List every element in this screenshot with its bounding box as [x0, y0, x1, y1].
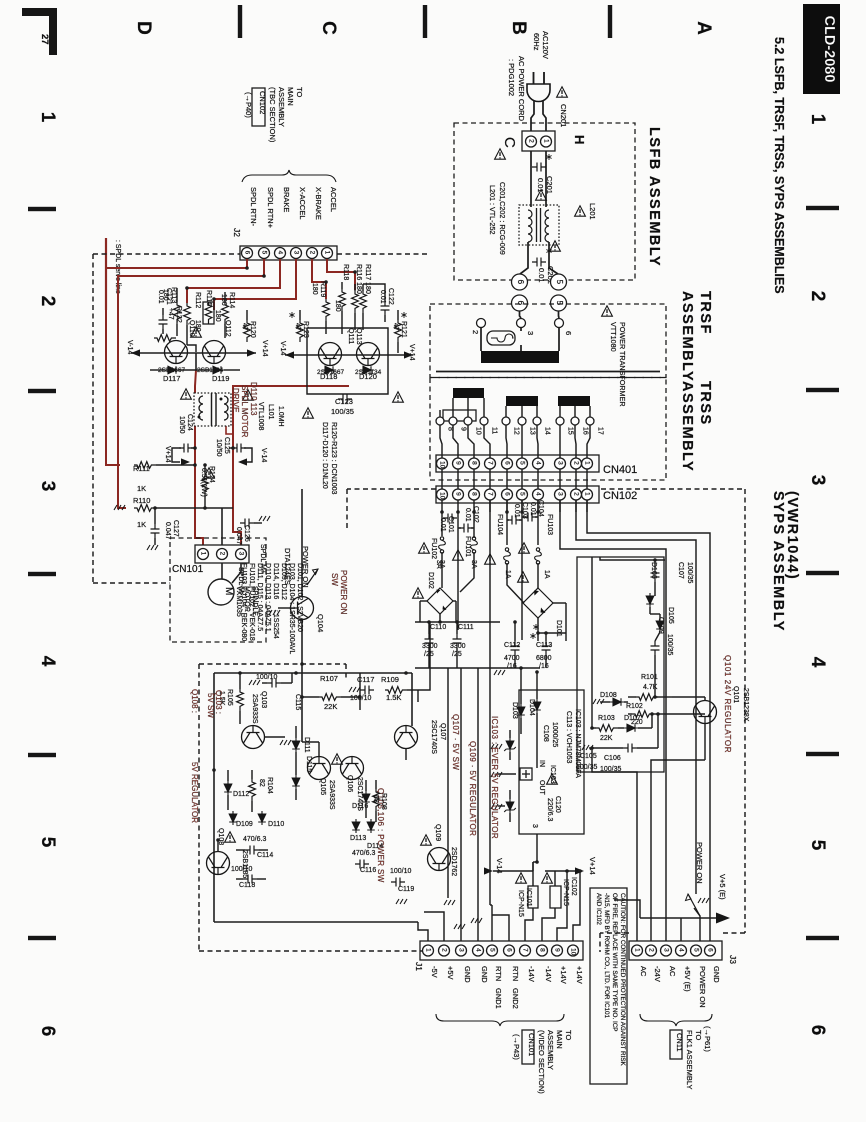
- svg-text:D114, D116: D114, D116: [272, 563, 279, 599]
- svg-text:2: 2: [308, 251, 315, 255]
- svg-text:3A: 3A: [435, 560, 442, 569]
- svg-text:SPDL RTN-: SPDL RTN-: [249, 187, 258, 227]
- dashed box around CN101 and motor: [170, 538, 266, 642]
- svg-text:AC: AC: [639, 966, 648, 977]
- capacitor C121 0.01: [159, 315, 168, 329]
- svg-text:2: 2: [218, 552, 225, 556]
- svg-text:C122: C122: [387, 288, 394, 305]
- bridge rectifier D102: [427, 588, 453, 614]
- svg-text:1000/25: 1000/25: [551, 722, 558, 747]
- IC103 regulator block box: [519, 690, 584, 834]
- net arrow V+5 E: [640, 917, 716, 919]
- svg-text:A: A: [693, 21, 714, 35]
- wire fused lines to bridge D102: [441, 552, 443, 588]
- svg-text:4: 4: [534, 492, 541, 496]
- svg-text:6: 6: [37, 1026, 58, 1037]
- connector CN401: [436, 455, 599, 472]
- svg-text:(→P61): (→P61): [703, 1026, 712, 1052]
- svg-text:D103, D104 : 1SR35-100AVL: D103, D104 : 1SR35-100AVL: [288, 563, 295, 654]
- red wire right pair output to motor: [233, 386, 349, 545]
- hatch at power on switch: [698, 898, 709, 903]
- grid tick top edge: [238, 5, 242, 38]
- svg-text:0.01: 0.01: [513, 504, 520, 518]
- svg-text:ASSEMBLY: ASSEMBLY: [679, 381, 695, 472]
- svg-text:FU104: FU104: [496, 514, 503, 535]
- svg-text:Q106: Q106: [346, 775, 353, 792]
- warning triangle Q108: [225, 832, 236, 842]
- svg-text:CLD-2080: CLD-2080: [821, 16, 837, 83]
- svg-text:AC: AC: [668, 966, 677, 977]
- diode D104: [533, 699, 541, 713]
- ground C127: [147, 545, 158, 550]
- svg-text:0.01: 0.01: [529, 502, 536, 516]
- transistor Q112 2SB1134: [203, 341, 226, 364]
- svg-text:C113 : VCH1053: C113 : VCH1053: [565, 711, 572, 764]
- svg-text:C110: C110: [430, 624, 446, 631]
- svg-text:RTN: RTN: [494, 966, 503, 981]
- svg-text:ASSEMBLY: ASSEMBLY: [546, 1030, 555, 1070]
- svg-text:/25: /25: [452, 651, 462, 658]
- warning triangle FU104: [485, 554, 496, 564]
- brace under J3: [640, 1014, 712, 1026]
- svg-text:7: 7: [486, 461, 493, 465]
- svg-text:C115: C115: [294, 694, 301, 710]
- AC plug P1: [527, 84, 550, 102]
- svg-text:R116 180: R116 180: [355, 264, 362, 294]
- svg-text:16: 16: [582, 427, 589, 435]
- svg-text:ASSEMBLY: ASSEMBLY: [679, 291, 695, 382]
- svg-text:3: 3: [526, 331, 535, 335]
- svg-text:/25: /25: [424, 651, 434, 658]
- ground C106: [582, 745, 593, 750]
- connector CN101: [195, 545, 249, 563]
- svg-text:8: 8: [470, 461, 477, 465]
- svg-text:D117: D117: [163, 374, 180, 383]
- grid ticks right edge: [806, 206, 839, 210]
- svg-text:15: 15: [567, 427, 574, 435]
- svg-text:2SB1238X: 2SB1238X: [742, 688, 749, 722]
- svg-text:D106: D106: [650, 562, 657, 579]
- svg-text:D108: D108: [600, 692, 617, 699]
- svg-text:8: 8: [538, 948, 545, 952]
- resistor R124 0.51 1W: [202, 473, 209, 495]
- resistor R123 47: [297, 320, 304, 342]
- svg-text:+5V: +5V: [446, 966, 455, 980]
- svg-text:D114: D114: [367, 843, 383, 850]
- svg-text:9: 9: [454, 461, 461, 465]
- svg-text:SW: SW: [330, 573, 339, 586]
- svg-text:C109: C109: [657, 617, 664, 634]
- transistor Q109 2SD1762: [428, 848, 451, 871]
- svg-text:5: 5: [260, 251, 267, 255]
- svg-text:180: 180: [334, 300, 341, 312]
- svg-text:R112: R112: [194, 292, 201, 308]
- svg-text:C: C: [501, 137, 518, 148]
- svg-text:C: C: [318, 21, 339, 35]
- svg-text:0.01: 0.01: [157, 290, 164, 304]
- svg-text:FU101,FU102 : VEK-018: FU101,FU102 : VEK-018: [248, 563, 255, 641]
- red wire J2 pin4: [187, 259, 280, 303]
- svg-text:OUT: OUT: [538, 780, 545, 796]
- wire down left side of 24V box: [591, 700, 593, 728]
- svg-text:6: 6: [706, 948, 713, 952]
- svg-text:ICP-N15: ICP-N15: [517, 890, 524, 917]
- svg-text:D103: D103: [511, 702, 518, 719]
- wires CN102 into SYPS: [586, 500, 588, 512]
- svg-text:14: 14: [544, 427, 551, 435]
- brace to J2 signals: [242, 170, 336, 182]
- net arrow V-14: [484, 867, 493, 874]
- svg-text:-14V: -14V: [544, 966, 553, 982]
- transformer secondary winding bar 1: [453, 388, 484, 398]
- transistors Q105 2SA933S Q106 2SC1740S: [308, 757, 331, 780]
- svg-text:Q103: Q103: [260, 691, 267, 708]
- power switch block dashed box: [198, 664, 200, 951]
- capacitor C123 100/35: [338, 395, 352, 404]
- ground C117: [349, 687, 360, 692]
- ground C126: [259, 516, 270, 521]
- svg-text:5: 5: [518, 461, 525, 465]
- ground hatches near J1: [454, 924, 465, 929]
- svg-text:CN201: CN201: [559, 104, 568, 127]
- fuse FU102 3A: [439, 537, 446, 553]
- svg-text:R120-R123 : DCN1003: R120-R123 : DCN1003: [330, 422, 337, 494]
- svg-text:GND: GND: [463, 966, 472, 983]
- svg-text:-14V: -14V: [527, 966, 536, 982]
- wire Q104 emitter up: [301, 540, 303, 596]
- svg-text:5: 5: [488, 948, 495, 952]
- label POWER TRANSFORMER VTT1080 with warning triangle: [602, 306, 613, 316]
- svg-text:D102: D102: [427, 572, 434, 589]
- svg-text:2: 2: [647, 948, 654, 952]
- svg-text:V+14: V+14: [408, 344, 415, 361]
- capacitor C202 0.01 across line: [532, 258, 546, 267]
- wires 5V block outputs to J1: [418, 922, 428, 941]
- svg-text:OF FIRE, REPLACE WITH SAME TYP: OF FIRE, REPLACE WITH SAME TYPE NO. ICP: [611, 893, 618, 1031]
- zener diode lower: [504, 799, 516, 813]
- svg-text:R123: R123: [302, 321, 309, 338]
- svg-text:AND IC102: AND IC102: [595, 893, 602, 925]
- svg-text:2: 2: [527, 139, 534, 143]
- wire V+14 rail to spindle section: [418, 622, 430, 690]
- svg-text:2: 2: [471, 330, 480, 334]
- svg-text:C117: C117: [357, 675, 374, 684]
- svg-text:CN101: CN101: [172, 564, 204, 575]
- svg-text:6: 6: [243, 251, 250, 255]
- junction dots: [440, 510, 444, 514]
- warning triangle below C201: [536, 190, 547, 200]
- svg-text:R108: R108: [380, 793, 387, 810]
- svg-text:C119: C119: [398, 886, 414, 893]
- svg-text:7: 7: [486, 492, 493, 496]
- svg-text:CN101: CN101: [527, 1033, 536, 1056]
- svg-text:C101: C101: [447, 516, 454, 533]
- svg-text:4700: 4700: [504, 655, 520, 662]
- resistor R122 47: [154, 335, 176, 342]
- capacitor C104 0.01: [523, 513, 537, 522]
- svg-text:D117-D120 : D1NL20: D117-D120 : D1NL20: [321, 422, 328, 489]
- svg-text:1: 1: [323, 251, 330, 255]
- svg-text:3: 3: [457, 948, 464, 952]
- transformer secondary winding bar 3: [558, 396, 590, 406]
- ground at rail: [494, 670, 505, 675]
- wires to IC protectors: [532, 862, 534, 886]
- svg-text:V-14: V-14: [126, 340, 133, 355]
- svg-text:9: 9: [460, 427, 467, 431]
- capacitor C110 3300/25: [425, 634, 434, 648]
- diode D105: [656, 618, 664, 632]
- svg-text:GND2: GND2: [511, 988, 520, 1009]
- svg-text:CN11: CN11: [675, 1033, 684, 1052]
- svg-text:C118: C118: [239, 882, 255, 889]
- svg-text:: 1SS254: : 1SS254: [272, 610, 279, 639]
- svg-text:47: 47: [241, 323, 248, 331]
- transistor Q103 2SA933S: [242, 726, 265, 749]
- svg-text:3: 3: [807, 475, 828, 486]
- resistor R113 180: [174, 302, 181, 324]
- svg-text:÷47: ÷47: [167, 308, 174, 320]
- capacitor C101 0.01: [441, 512, 443, 536]
- model number box CLD-2080: [803, 4, 840, 94]
- svg-text:R110: R110: [133, 496, 150, 505]
- svg-text:7: 7: [521, 948, 528, 952]
- svg-text:ICP-N15: ICP-N15: [562, 879, 569, 906]
- svg-text:10: 10: [569, 948, 576, 956]
- svg-text:-24V: -24V: [653, 966, 662, 982]
- svg-text:22K: 22K: [324, 702, 337, 711]
- mating terminals 6/5 LSFB side: [512, 274, 528, 290]
- svg-text:C108: C108: [542, 725, 549, 742]
- svg-text:100/10: 100/10: [390, 868, 412, 875]
- svg-text:Q107 · 5V SW: Q107 · 5V SW: [451, 714, 460, 770]
- svg-text:V+14: V+14: [261, 340, 268, 357]
- wire CN102 pin2 to power-on switch line: [576, 500, 696, 894]
- svg-text:D107: D107: [624, 715, 641, 722]
- svg-text:POWER ON: POWER ON: [695, 842, 704, 884]
- svg-text:5.2 LSFB, TRSF, TRSS, SYPS A: 5.2 LSFB, TRSF, TRSS, SYPS ASSEMBLIES: [772, 37, 786, 294]
- wire L201 to terminals: [527, 242, 529, 262]
- svg-text:CN401: CN401: [603, 464, 637, 476]
- svg-text:C123: C123: [335, 397, 353, 406]
- svg-text:3: 3: [37, 481, 58, 492]
- secondary terminal leads: [439, 410, 441, 417]
- svg-text:0.51(1W): 0.51(1W): [200, 468, 207, 497]
- svg-text:0.047: 0.047: [164, 522, 171, 540]
- svg-text:TO: TO: [564, 1030, 573, 1040]
- svg-text:MAIN: MAIN: [555, 1030, 564, 1049]
- svg-text:4: 4: [677, 948, 684, 952]
- svg-text:LSFB ASSEMBLY: LSFB ASSEMBLY: [646, 127, 662, 267]
- svg-text:4: 4: [534, 461, 541, 465]
- label L101 VTL-1008 1.0MH warning: [243, 390, 254, 400]
- svg-text:4: 4: [276, 251, 283, 255]
- svg-text:D109, D112: D109, D112: [280, 563, 287, 600]
- svg-text:IC103 : EVER 5V REGULATOR: IC103 : EVER 5V REGULATOR: [490, 716, 499, 839]
- svg-text:C201,C202 : RCG-009: C201,C202 : RCG-009: [498, 182, 507, 255]
- svg-text:C120: C120: [554, 796, 561, 813]
- warning triangle D117: [181, 389, 192, 399]
- svg-text:100/35: 100/35: [686, 562, 693, 584]
- resistor R121 47: [395, 320, 402, 342]
- transistor Q104 DTA124ES: [291, 597, 314, 620]
- svg-text:J3: J3: [728, 955, 738, 964]
- capacitor C126 0.047: [240, 519, 254, 528]
- svg-text:C125: C125: [223, 437, 230, 454]
- svg-text:6: 6: [564, 331, 573, 335]
- wire fused to bridge D101: [537, 563, 539, 588]
- svg-text:47: 47: [294, 323, 301, 331]
- resistor R115 boxed: [203, 302, 214, 324]
- svg-text:1.5K: 1.5K: [386, 693, 401, 702]
- wires to fuses FU103/FU104: [506, 500, 508, 545]
- svg-text:L101: L101: [267, 404, 274, 420]
- svg-text:C121: C121: [165, 288, 172, 305]
- emitter rail left pair with V-14 V+14 arrows: [131, 352, 256, 354]
- svg-text:-5V: -5V: [430, 966, 439, 978]
- capacitor C201 0.01 across line: [532, 163, 546, 172]
- svg-text:3: 3: [556, 461, 563, 465]
- wires Q101: [654, 664, 656, 697]
- svg-text:R121: R121: [400, 321, 407, 338]
- svg-text:D119: D119: [212, 374, 229, 383]
- svg-text:: PDG1002: : PDG1002: [507, 59, 516, 96]
- transformer primary winding bar: [481, 351, 559, 363]
- wire Q104 collector down: [301, 620, 303, 664]
- resistors R116 R117 180: [352, 291, 359, 313]
- diode D119: [210, 366, 224, 374]
- svg-text:SPDL MOTOR: SPDL MOTOR: [240, 385, 249, 438]
- ground at R110: [114, 505, 125, 510]
- svg-text:IC101: IC101: [525, 888, 532, 907]
- svg-text:DRIVE: DRIVE: [231, 388, 240, 412]
- svg-text:1: 1: [424, 948, 431, 952]
- long ground bus wires to J1: [447, 668, 449, 898]
- svg-text:POWER ON: POWER ON: [339, 570, 348, 615]
- regulator IC103 symbol IN OUT: [520, 768, 532, 780]
- grid ticks left edge: [28, 207, 56, 211]
- svg-text:FU103: FU103: [546, 514, 553, 535]
- diode D117: [165, 366, 179, 374]
- LSFB assembly dashed box: [454, 123, 635, 280]
- svg-text:Q104: Q104: [316, 614, 325, 632]
- svg-text:VTT1080: VTT1080: [609, 322, 618, 352]
- svg-text:5: 5: [692, 948, 699, 952]
- svg-text:R118: R118: [342, 264, 349, 280]
- svg-text:4: 4: [37, 656, 58, 667]
- svg-text:Q109: Q109: [434, 824, 441, 841]
- wire into C107 from box top: [600, 557, 645, 560]
- wire node R107: [359, 673, 361, 697]
- capacitor C124 10/50: [179, 444, 193, 453]
- SYPS dashed outline left portion: [347, 488, 436, 490]
- transistor Q101 2SB1238X: [694, 701, 717, 724]
- diode D118: [322, 366, 336, 374]
- svg-text:C113: C113: [536, 642, 552, 649]
- diodes D109 D110: [229, 811, 237, 825]
- net arrow V+14 at C124: [172, 448, 181, 462]
- svg-text:0.047: 0.047: [235, 527, 242, 545]
- SYPS assembly dashed box outline: [601, 488, 745, 490]
- capacitor C112 4700/16: [511, 641, 520, 655]
- svg-text:1K: 1K: [137, 520, 146, 529]
- svg-text:V-14: V-14: [260, 448, 267, 463]
- wire out of IC103 block: [532, 767, 537, 769]
- svg-text:(VIDEO SECTION): (VIDEO SECTION): [537, 1030, 546, 1094]
- svg-text:4: 4: [807, 657, 828, 668]
- svg-text:X-ACCEL: X-ACCEL: [298, 187, 307, 220]
- svg-text:0.01: 0.01: [439, 518, 446, 532]
- svg-text:(→P40): (→P40): [244, 92, 253, 118]
- svg-text:(TBC SECTION): (TBC SECTION): [268, 87, 277, 143]
- svg-text:2: 2: [572, 492, 579, 496]
- svg-text:V-14: V-14: [495, 858, 504, 873]
- svg-text:6: 6: [505, 948, 512, 952]
- svg-text:1A: 1A: [543, 570, 550, 579]
- resistor R119 180: [323, 299, 330, 321]
- svg-text:220/6.3: 220/6.3: [546, 798, 553, 821]
- warning triangle IC103: [547, 774, 558, 784]
- connector J2: [240, 246, 337, 260]
- wires RTN pins: [491, 915, 493, 941]
- svg-text:22K: 22K: [600, 735, 613, 742]
- wire CN102 pin1 to J3 GND: [587, 500, 710, 941]
- svg-text:1: 1: [633, 948, 640, 952]
- svg-text:5: 5: [37, 837, 58, 848]
- svg-text:C107: C107: [677, 562, 684, 579]
- svg-text:B: B: [508, 21, 529, 35]
- svg-text:D110: D110: [268, 821, 284, 828]
- svg-text:R122: R122: [175, 306, 182, 323]
- svg-text:100/10: 100/10: [256, 674, 278, 681]
- svg-text:5: 5: [555, 301, 564, 306]
- svg-text:2: 2: [572, 461, 579, 465]
- svg-text:R109: R109: [381, 675, 399, 684]
- svg-text:10: 10: [438, 461, 445, 469]
- svg-text:1: 1: [542, 139, 549, 143]
- red wire J2 pin5: [118, 259, 264, 508]
- svg-text:470/6.3: 470/6.3: [352, 850, 375, 857]
- svg-text:2SB1185: 2SB1185: [241, 850, 248, 878]
- svg-text:0.01: 0.01: [537, 268, 546, 283]
- svg-text:BRAKE: BRAKE: [282, 187, 291, 212]
- svg-text:6: 6: [807, 1025, 828, 1036]
- svg-text:TRSS: TRSS: [697, 381, 713, 426]
- resistor R112 180: [184, 303, 191, 325]
- svg-text:82: 82: [258, 779, 265, 787]
- fuse FU101 3A: [473, 536, 475, 538]
- transistor Q107 2SC1740S: [395, 726, 418, 749]
- svg-text:D104: D104: [528, 699, 535, 716]
- svg-text:5: 5: [807, 840, 828, 851]
- svg-text:SYPS ASSEMBLY: SYPS ASSEMBLY: [770, 491, 786, 632]
- svg-text:GND: GND: [712, 966, 721, 983]
- red wire stub at L101 winding2: [226, 426, 233, 434]
- svg-text:3: 3: [237, 552, 244, 556]
- svg-text:Q107: Q107: [439, 723, 446, 740]
- wire CN201 to C201/L201: [530, 151, 532, 207]
- svg-text:Q110: Q110: [188, 320, 195, 337]
- svg-text:Q113: Q113: [355, 328, 362, 345]
- svg-text:FU102: FU102: [430, 538, 437, 559]
- svg-text:L201: L201: [588, 203, 597, 220]
- warning triangle Q109: [421, 835, 432, 845]
- svg-text:10/50: 10/50: [178, 416, 185, 434]
- bridge rectifier D101: [523, 588, 553, 618]
- warning triangle Q105: [332, 754, 343, 764]
- svg-text:180: 180: [220, 294, 227, 306]
- svg-text:C124: C124: [186, 414, 193, 431]
- svg-text:CAUTION: FOR CONTINUED PROTECT: CAUTION: FOR CONTINUED PROTECTION AGAINS…: [619, 893, 626, 1067]
